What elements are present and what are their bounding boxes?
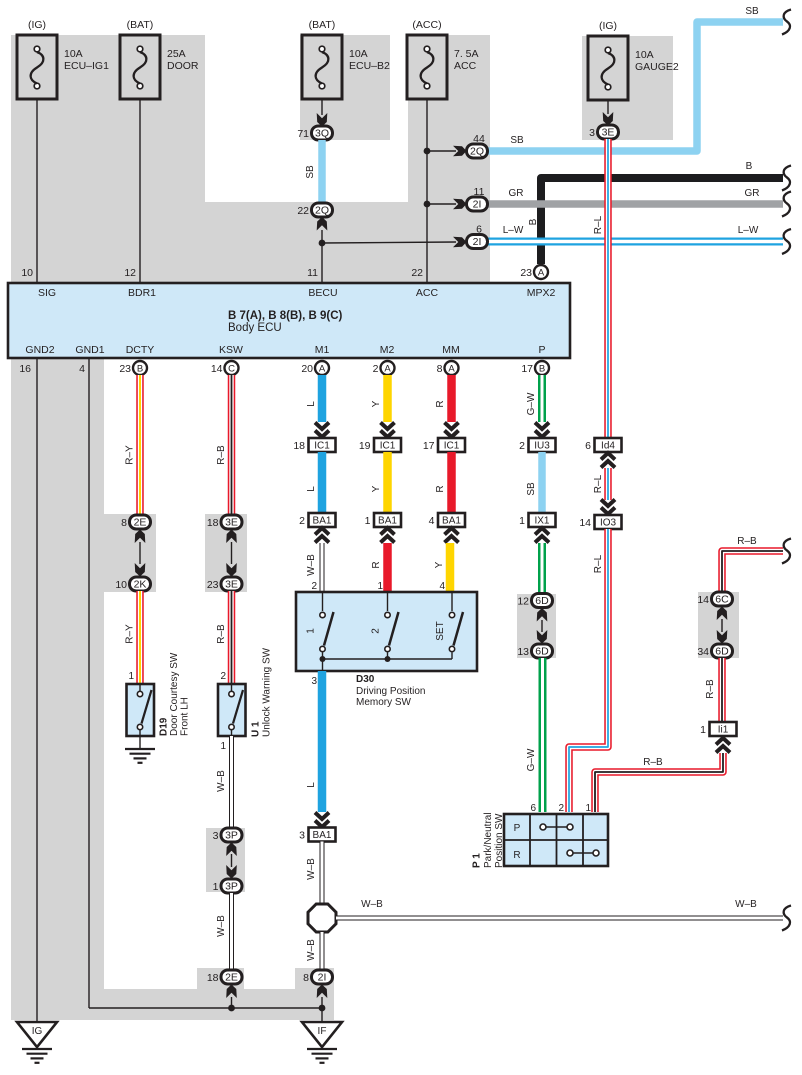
connector 2I pin 11 xyxy=(467,186,488,211)
wire R-B right edge to 6C xyxy=(722,536,791,592)
connector 2K pin 10 xyxy=(115,577,150,591)
svg-text:3: 3 xyxy=(311,676,317,687)
svg-text:IU3: IU3 xyxy=(534,441,550,452)
svg-text:10: 10 xyxy=(115,579,127,591)
connector 6D pin 34 xyxy=(697,644,732,658)
svg-text:1: 1 xyxy=(377,581,383,592)
fuse 25A DOOR (BAT) xyxy=(120,19,199,99)
wire SB bus from 2Q-44 to top right edge xyxy=(487,6,791,151)
svg-text:34: 34 xyxy=(697,646,709,658)
svg-text:SB: SB xyxy=(510,135,524,146)
svg-text:12: 12 xyxy=(517,596,529,608)
svg-text:10A: 10A xyxy=(64,48,83,60)
connector 6D pin 13 xyxy=(517,644,552,658)
svg-text:23: 23 xyxy=(520,267,532,279)
connector BA1 pin 4 xyxy=(429,513,465,543)
svg-text:2: 2 xyxy=(558,803,564,814)
svg-text:D19: D19 xyxy=(159,717,170,736)
svg-text:M2: M2 xyxy=(380,344,395,356)
svg-text:Front LH: Front LH xyxy=(180,697,191,736)
wire 2I to IF ground xyxy=(317,985,328,1012)
svg-text:W–B: W–B xyxy=(216,915,227,937)
svg-text:R–B: R–B xyxy=(216,445,227,465)
ECU pin M2 2 (A) xyxy=(373,361,395,375)
ground IG xyxy=(17,1022,57,1063)
svg-text:MPX2: MPX2 xyxy=(527,287,556,299)
svg-text:2: 2 xyxy=(519,440,525,452)
svg-text:IF: IF xyxy=(318,1026,327,1037)
wire fuse GAUGE2 to connector 3E xyxy=(603,100,614,126)
junction node octagon xyxy=(308,904,336,932)
svg-text:Ii1: Ii1 xyxy=(718,725,729,736)
ECU pin KSW 14 (C) xyxy=(211,361,239,375)
svg-text:R–L: R–L xyxy=(593,474,604,493)
svg-text:2: 2 xyxy=(371,628,382,634)
connector 3Q pin 71 xyxy=(297,126,332,140)
ECU pin MPX2 23 (A) xyxy=(520,265,548,279)
svg-text:BA1: BA1 xyxy=(313,830,332,841)
wire R-B Ii1 to P1 pin 1 xyxy=(595,753,723,812)
svg-text:KSW: KSW xyxy=(219,344,243,356)
svg-text:R–B: R–B xyxy=(643,757,663,768)
wire B bus from MPX2 to right edge xyxy=(528,161,791,264)
svg-text:3P: 3P xyxy=(225,830,238,842)
svg-text:6D: 6D xyxy=(715,646,729,658)
connector 2Q pin 44 xyxy=(467,133,488,158)
svg-text:L–W: L–W xyxy=(503,225,524,236)
wire Y M2 to IC1 xyxy=(371,375,395,437)
svg-text:R–L: R–L xyxy=(593,215,604,234)
connector BA1 pin 2 xyxy=(299,513,335,543)
connector 3P pin 3 xyxy=(213,828,242,842)
joint 2E to 2K xyxy=(135,530,146,577)
wire W-B junction to 2I xyxy=(306,932,322,970)
ECU pin M1 20 (A) xyxy=(301,361,329,375)
ECU pin GND1 4 xyxy=(79,363,85,375)
ECU top pin numbers xyxy=(21,267,423,279)
svg-text:ECU–B2: ECU–B2 xyxy=(349,60,390,72)
wire R-B KSW to 3E xyxy=(216,375,232,515)
svg-text:17: 17 xyxy=(423,440,435,452)
svg-text:IO3: IO3 xyxy=(600,518,617,529)
svg-text:Body ECU: Body ECU xyxy=(228,322,282,334)
svg-text:17: 17 xyxy=(521,363,533,375)
svg-text:R–Y: R–Y xyxy=(125,624,136,644)
svg-text:ECU–IG1: ECU–IG1 xyxy=(64,60,109,72)
svg-text:A: A xyxy=(384,364,391,375)
svg-text:6: 6 xyxy=(476,224,482,236)
wire R MM to IC1 xyxy=(435,375,459,437)
wire G-W IX1 to 6D xyxy=(538,543,546,594)
connector IC1 pin 19 xyxy=(359,438,401,452)
svg-text:ACC: ACC xyxy=(454,60,477,72)
svg-text:B: B xyxy=(528,218,539,225)
svg-text:4: 4 xyxy=(429,515,435,527)
svg-text:Door Courtesy SW: Door Courtesy SW xyxy=(169,652,180,736)
connector 3E pin 18 xyxy=(207,515,242,529)
svg-text:R–B: R–B xyxy=(705,679,716,699)
svg-text:1: 1 xyxy=(306,628,317,634)
connector 2I pin 8 xyxy=(303,970,332,984)
svg-text:2Q: 2Q xyxy=(315,205,329,217)
svg-text:(IG): (IG) xyxy=(28,19,46,31)
svg-text:A: A xyxy=(319,364,326,375)
wire fuse ECU-B2 to connector 3Q xyxy=(317,99,328,127)
connector 3E pin 23 xyxy=(207,577,242,591)
svg-text:8: 8 xyxy=(437,363,443,375)
wire L-W bus from 2I-6 to right edge xyxy=(487,225,791,254)
wire W-B 3P to 2E xyxy=(216,893,232,970)
svg-text:U 1: U 1 xyxy=(251,721,262,737)
svg-text:GND2: GND2 xyxy=(25,344,54,356)
svg-text:2: 2 xyxy=(311,581,317,592)
svg-text:L: L xyxy=(306,782,317,788)
svg-text:12: 12 xyxy=(124,267,136,279)
svg-text:2K: 2K xyxy=(134,579,147,591)
svg-text:IC1: IC1 xyxy=(444,441,460,452)
svg-text:W–B: W–B xyxy=(361,899,383,910)
svg-text:8: 8 xyxy=(121,517,127,529)
connector Id4 pin 6 xyxy=(585,438,621,468)
wire fuse ECU-IG1 to ECU pin 10 xyxy=(36,99,38,283)
svg-text:3E: 3E xyxy=(602,127,615,139)
wire R BA1 to D30 pin 1 xyxy=(371,543,388,592)
wire W-B U1 pin 1 to 3P xyxy=(216,736,232,828)
svg-text:16: 16 xyxy=(19,363,31,375)
svg-text:IG: IG xyxy=(32,1026,43,1037)
svg-text:1: 1 xyxy=(220,741,226,752)
svg-text:R: R xyxy=(371,561,382,568)
svg-text:GND1: GND1 xyxy=(75,344,104,356)
svg-text:1: 1 xyxy=(365,515,371,527)
svg-text:6D: 6D xyxy=(535,595,549,607)
fuse 7.5A ACC (ACC) xyxy=(407,19,479,99)
fuse 10A GAUGE2 (IG) xyxy=(588,20,679,100)
svg-text:GR: GR xyxy=(745,188,760,199)
svg-text:22: 22 xyxy=(297,205,309,217)
svg-text:SET: SET xyxy=(435,621,446,640)
wire R-B 3E to U1 pin 2 xyxy=(216,591,232,684)
svg-text:M1: M1 xyxy=(315,344,330,356)
svg-text:SB: SB xyxy=(526,482,537,496)
svg-text:R–B: R–B xyxy=(737,536,757,547)
svg-text:2Q: 2Q xyxy=(470,146,484,158)
svg-text:R–Y: R–Y xyxy=(125,445,136,465)
svg-text:13: 13 xyxy=(517,646,529,658)
svg-text:6D: 6D xyxy=(535,646,549,658)
wire R-Y 2K to D19 xyxy=(125,591,141,684)
connector BA1 pin 1 xyxy=(365,513,401,543)
svg-text:2E: 2E xyxy=(225,972,238,984)
svg-text:Position SW: Position SW xyxy=(494,813,505,868)
svg-text:3: 3 xyxy=(213,830,219,842)
svg-text:P: P xyxy=(514,823,521,834)
svg-text:11: 11 xyxy=(307,267,318,279)
svg-text:2: 2 xyxy=(299,515,305,527)
connector Ii1 pin 1 xyxy=(700,722,736,753)
svg-text:3E: 3E xyxy=(225,579,238,591)
svg-text:W–B: W–B xyxy=(306,939,317,961)
ECU pin GND2 16 xyxy=(19,363,31,375)
svg-text:Y: Y xyxy=(371,485,382,492)
svg-text:R: R xyxy=(435,485,446,492)
wire Y IC1 to BA1 xyxy=(371,452,388,513)
wire branch BECU to connector 2I pin 6 xyxy=(322,237,467,248)
wire R-B 6D to Ii1 xyxy=(705,658,722,722)
wire fuse DOOR to ECU pin 12 xyxy=(139,99,141,283)
svg-text:18: 18 xyxy=(293,440,305,452)
wire 2Q to ECU pin 11 BECU xyxy=(317,217,328,283)
svg-text:2I: 2I xyxy=(473,199,482,211)
svg-text:G–W: G–W xyxy=(526,392,537,415)
joint 6C to 6D xyxy=(717,607,728,644)
joint 3P to 3P xyxy=(226,843,237,879)
svg-text:(BAT): (BAT) xyxy=(127,19,154,31)
svg-text:3P: 3P xyxy=(225,881,238,893)
joint 3E to 3E xyxy=(226,530,237,577)
svg-text:19: 19 xyxy=(359,440,371,452)
switch U1 Unlock Warning SW xyxy=(218,647,273,737)
wire L D30 pin 3 to BA1 xyxy=(306,671,329,827)
switch P1 Park/Neutral Position SW xyxy=(472,803,609,868)
svg-text:BA1: BA1 xyxy=(313,516,332,527)
wire SB 3Q to 2Q xyxy=(305,140,322,203)
svg-text:W–B: W–B xyxy=(306,858,317,880)
wire G-W P to IU3 xyxy=(526,375,549,437)
connector BA1 pin 3 xyxy=(299,828,335,842)
wire SB IU3 to IX1 xyxy=(526,452,542,513)
svg-text:3: 3 xyxy=(299,830,305,842)
svg-text:IX1: IX1 xyxy=(534,516,549,527)
svg-text:25A: 25A xyxy=(167,48,186,60)
svg-text:Id4: Id4 xyxy=(601,441,615,452)
wire W-B BA1 to junction xyxy=(306,842,322,905)
svg-text:ACC: ACC xyxy=(416,287,439,299)
wire L IC1 to BA1 xyxy=(306,452,322,513)
svg-text:L: L xyxy=(306,401,317,407)
svg-text:10A: 10A xyxy=(635,49,654,61)
joint 6D to 6D xyxy=(537,608,548,644)
svg-text:18: 18 xyxy=(207,972,219,984)
svg-text:1: 1 xyxy=(519,515,525,527)
svg-text:L–W: L–W xyxy=(738,225,759,236)
ECU pin DCTY 23 (B) xyxy=(119,361,147,375)
ECU pin MM 8 (A) xyxy=(437,361,459,375)
connector 2E pin 18 xyxy=(207,970,242,984)
svg-text:A: A xyxy=(538,268,545,279)
svg-text:(ACC): (ACC) xyxy=(412,19,441,31)
svg-text:14: 14 xyxy=(579,517,591,529)
svg-text:IC1: IC1 xyxy=(380,441,396,452)
wire L M1 to IC1 xyxy=(306,375,329,437)
svg-text:6: 6 xyxy=(530,803,536,814)
svg-text:2: 2 xyxy=(220,671,226,682)
svg-text:(BAT): (BAT) xyxy=(309,19,336,31)
wire R IC1 to BA1 xyxy=(435,452,452,513)
wire W-B junction to right edge xyxy=(336,899,791,931)
svg-text:10A: 10A xyxy=(349,48,368,60)
svg-text:SB: SB xyxy=(745,6,759,17)
connector IX1 pin 1 xyxy=(519,513,555,543)
svg-text:10: 10 xyxy=(21,267,33,279)
svg-text:BECU: BECU xyxy=(308,287,337,299)
svg-text:2: 2 xyxy=(373,363,379,375)
switch D30 Driving Position Memory SW xyxy=(296,592,477,708)
svg-text:6: 6 xyxy=(585,440,591,452)
fuse 10A ECU-B2 (BAT) xyxy=(302,19,390,99)
svg-text:R–L: R–L xyxy=(593,554,604,573)
svg-text:8: 8 xyxy=(303,972,309,984)
svg-text:DOOR: DOOR xyxy=(167,60,199,72)
wire fuse ACC to ECU pin 22 xyxy=(424,99,431,283)
wire R-L IO3 to P1 pin 2 xyxy=(569,529,608,812)
svg-text:SB: SB xyxy=(305,165,316,179)
svg-text:18: 18 xyxy=(207,517,219,529)
svg-text:A: A xyxy=(448,364,455,375)
svg-text:G–W: G–W xyxy=(526,748,537,771)
svg-text:Y: Y xyxy=(371,400,382,407)
svg-text:6C: 6C xyxy=(715,594,729,606)
svg-text:R: R xyxy=(435,400,446,407)
wire 2E to ground line xyxy=(226,985,237,1012)
connector 2I pin 6 xyxy=(467,224,488,249)
svg-text:Park/Neutral: Park/Neutral xyxy=(483,812,494,868)
wire R-Y DCTY to 2E xyxy=(125,375,141,515)
svg-text:L: L xyxy=(306,486,317,492)
wire Y BA1 to D30 pin 4 xyxy=(434,543,450,592)
svg-text:GAUGE2: GAUGE2 xyxy=(635,61,679,73)
svg-text:IC1: IC1 xyxy=(314,441,330,452)
svg-text:71: 71 xyxy=(297,128,309,140)
svg-text:(IG): (IG) xyxy=(599,20,617,32)
wire W-B BA1 to D30 pin 2 xyxy=(306,543,322,592)
svg-text:4: 4 xyxy=(79,363,85,375)
svg-text:R–B: R–B xyxy=(216,624,227,644)
svg-text:Memory SW: Memory SW xyxy=(356,697,412,708)
svg-text:Driving Position: Driving Position xyxy=(356,686,425,697)
connector 2E pin 8 xyxy=(121,515,150,529)
svg-text:7. 5A: 7. 5A xyxy=(454,48,479,60)
svg-text:44: 44 xyxy=(473,133,485,145)
svg-text:W–B: W–B xyxy=(216,770,227,792)
wire GND1 to IF ground junction xyxy=(89,358,322,1008)
svg-text:20: 20 xyxy=(301,363,313,375)
svg-text:DCTY: DCTY xyxy=(126,344,155,356)
svg-text:23: 23 xyxy=(207,579,219,591)
svg-text:3E: 3E xyxy=(225,517,238,529)
svg-text:Unlock Warning SW: Unlock Warning SW xyxy=(262,647,273,737)
svg-text:1: 1 xyxy=(213,881,219,893)
svg-text:B: B xyxy=(539,364,545,375)
svg-text:B: B xyxy=(137,364,143,375)
connector IC1 pin 17 xyxy=(423,438,465,452)
svg-text:B: B xyxy=(746,161,753,172)
fuse 10A ECU-IG1 (IG) xyxy=(17,19,109,99)
svg-text:11: 11 xyxy=(474,186,485,198)
svg-text:3: 3 xyxy=(589,127,595,139)
wire GND2 to IG ground xyxy=(36,358,38,1022)
svg-text:3Q: 3Q xyxy=(315,128,329,140)
svg-text:BA1: BA1 xyxy=(442,516,461,527)
svg-text:R: R xyxy=(513,850,520,861)
svg-text:P 1: P 1 xyxy=(472,853,483,868)
ground below D19 xyxy=(125,736,155,763)
svg-text:2I: 2I xyxy=(473,236,482,248)
connector 3E pin 3 xyxy=(589,125,618,139)
wire G-W 6D to P1 pin 6 xyxy=(526,658,543,812)
svg-text:1: 1 xyxy=(700,724,706,736)
svg-text:GR: GR xyxy=(509,188,524,199)
wire branch ACC to connector 2I pin 11 xyxy=(427,199,467,210)
connector 3P pin 1 xyxy=(213,879,242,893)
svg-text:1: 1 xyxy=(128,671,134,682)
svg-text:BA1: BA1 xyxy=(378,516,397,527)
svg-text:2I: 2I xyxy=(318,972,327,984)
svg-text:14: 14 xyxy=(211,363,223,375)
svg-text:1: 1 xyxy=(585,803,591,814)
wire GR bus from 2I-11 to right edge xyxy=(487,188,791,217)
connector IU3 pin 2 xyxy=(519,438,555,452)
wire branch ACC to connector 2Q pin 44 xyxy=(427,146,467,157)
svg-text:23: 23 xyxy=(119,363,131,375)
svg-text:B 7(A), B 8(B), B 9(C): B 7(A), B 8(B), B 9(C) xyxy=(228,310,343,322)
svg-text:Y: Y xyxy=(434,561,445,568)
connector 6C pin 14 xyxy=(697,592,732,606)
svg-text:2E: 2E xyxy=(134,517,147,529)
connector 6D pin 12 xyxy=(517,594,552,608)
svg-text:14: 14 xyxy=(697,594,709,606)
svg-text:BDR1: BDR1 xyxy=(128,287,156,299)
ECU pin P 17 (B) xyxy=(521,361,549,375)
switch D19 Door Courtesy SW Front LH xyxy=(127,652,191,736)
connector 2Q pin 22 xyxy=(297,203,332,217)
svg-text:D30: D30 xyxy=(356,674,375,685)
svg-text:4: 4 xyxy=(439,581,445,592)
wire R-L 3E to Id4 xyxy=(593,139,608,438)
svg-text:P: P xyxy=(538,344,545,356)
svg-text:SIG: SIG xyxy=(38,287,56,299)
svg-text:W–B: W–B xyxy=(735,899,757,910)
Body ECU B7(A) B8(B) B9(C) xyxy=(8,283,570,358)
svg-text:W–B: W–B xyxy=(306,554,317,576)
wire R-L Id4 to IO3 xyxy=(593,468,608,500)
connector IO3 pin 14 xyxy=(579,500,621,530)
svg-text:MM: MM xyxy=(442,344,460,356)
connector IC1 pin 18 xyxy=(293,438,335,452)
svg-text:22: 22 xyxy=(411,267,423,279)
ground IF xyxy=(302,1008,342,1063)
svg-text:C: C xyxy=(228,364,235,375)
